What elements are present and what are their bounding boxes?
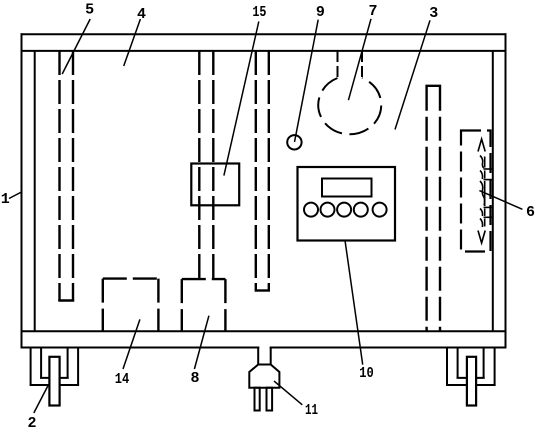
svg-text:14: 14 [115,371,130,388]
leader line 1 [9,192,22,199]
svg-text:6: 6 [526,204,535,221]
leader line 3 [395,20,430,129]
leader line 2 [34,385,49,413]
svg-text:11: 11 [305,402,318,419]
leader line 5 [62,19,90,74]
leader line 6 [479,191,522,210]
leader line 15 [224,22,259,176]
svg-text:10: 10 [359,365,374,382]
right caster wheel [467,357,476,406]
top bar of cabinet frame [21,33,507,52]
svg-text:7: 7 [368,3,377,20]
indicator circle 9 [287,135,301,149]
left wall (item 1) [22,34,35,347]
leader line 11 [274,381,302,405]
right wall [493,34,506,347]
fan 6 blades [478,139,493,243]
leader line 14 [123,319,140,369]
leader line 8 [194,316,209,369]
svg-text:4: 4 [137,6,146,23]
right dashed duct [427,87,440,331]
motor box 8 [182,279,226,331]
left caster 2 bracket [30,348,80,386]
panel buttons [304,203,318,217]
dashed tube 5 (left heating rod) [60,51,74,301]
dashed tube (center rod) [256,51,269,290]
fan 6 dashed housing [461,131,491,252]
panel display window [322,179,372,197]
bulb 7 dashed circle [318,78,381,134]
box 15 (slider block) [191,164,239,206]
leader line 4 [124,19,141,66]
bottom bar of cabinet frame [21,331,507,347]
plug prongs [255,388,260,411]
svg-text:5: 5 [85,2,94,19]
plug 11 body [249,365,279,388]
svg-text:8: 8 [190,370,199,387]
svg-text:15: 15 [252,4,266,21]
svg-text:1: 1 [1,191,10,208]
heater box 14 [103,279,159,332]
bulb 7 neck lines [338,51,363,78]
svg-text:3: 3 [429,5,438,22]
dashed rod pair through box 15 [199,51,213,279]
leader line 10 [345,240,363,364]
leader line 7 [348,19,371,100]
right caster bracket [446,348,496,386]
leader line 9 [295,20,319,142]
control panel 10 [298,167,396,241]
svg-text:2: 2 [27,415,36,429]
svg-text:9: 9 [316,4,325,21]
power cord stem [259,346,269,364]
left caster wheel [49,357,59,406]
